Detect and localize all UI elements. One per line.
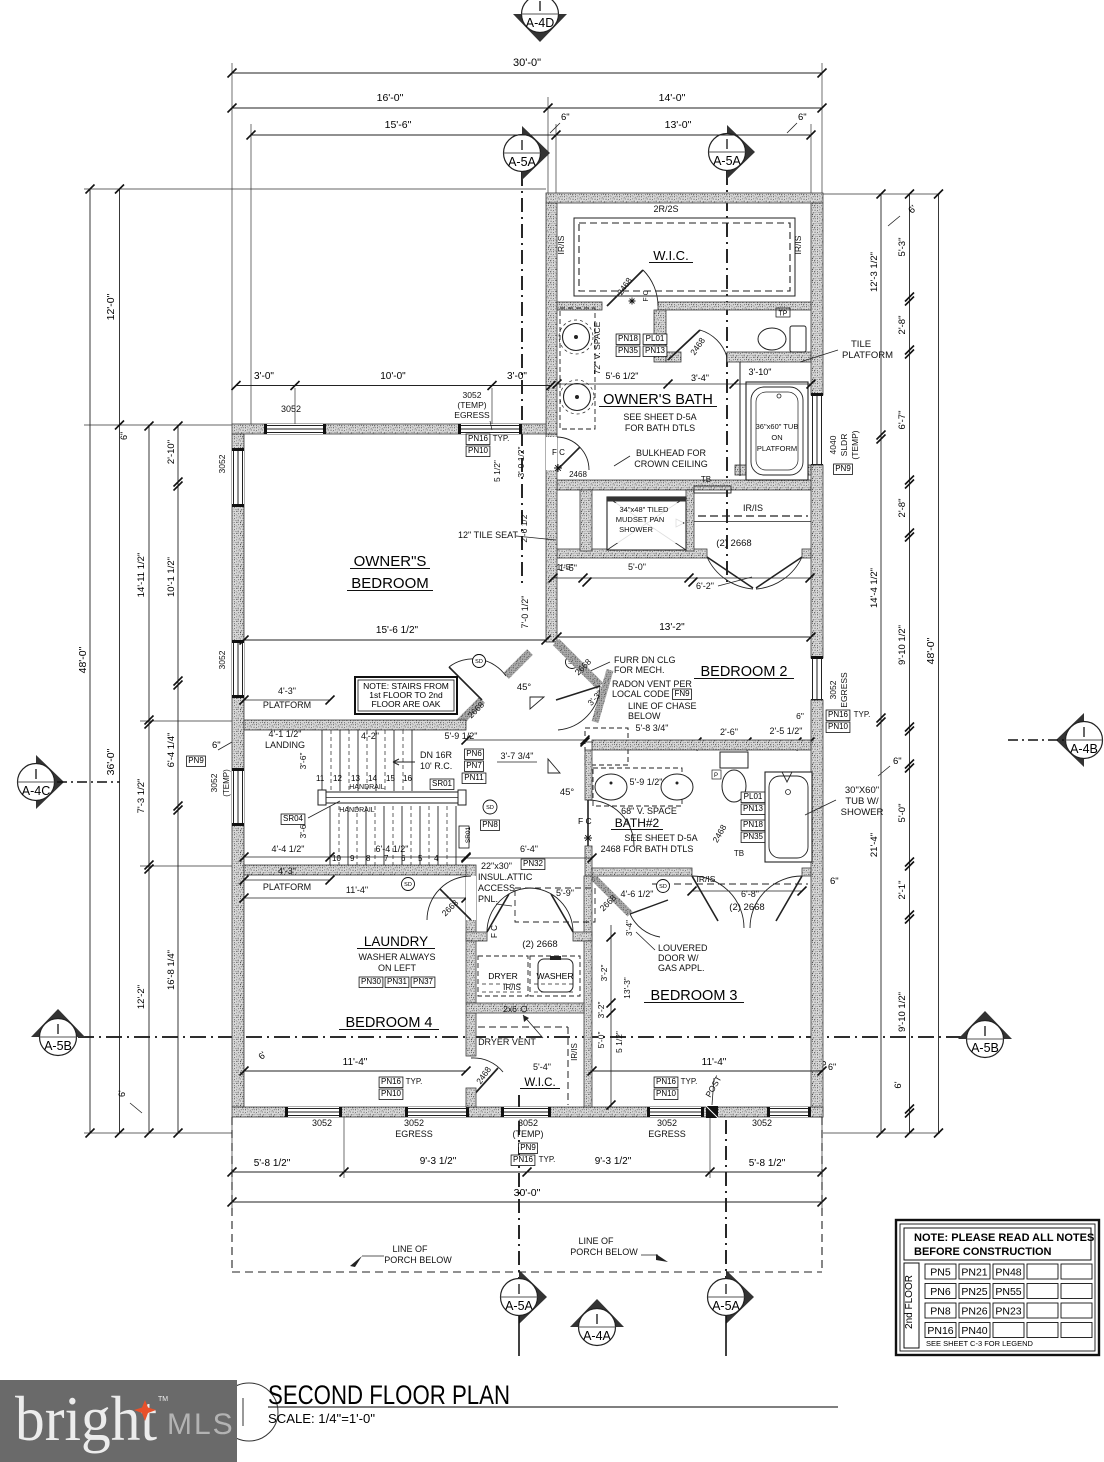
wall tile platform: [735, 465, 811, 475]
svg-text:NOTE: PLEASE READ ALL NOTE: NOTE: PLEASE READ ALL NOTES: [914, 1232, 1094, 1244]
svg-text:PN11: PN11: [464, 773, 484, 782]
svg-text:6': 6': [117, 1090, 127, 1097]
svg-text:11'-4": 11'-4": [343, 1057, 368, 1068]
title circle behind: [220, 1383, 278, 1441]
section stub A-4C: [57, 781, 120, 783]
extension line x556 top: [555, 124, 557, 193]
svg-text:(TEMP): (TEMP): [457, 400, 486, 410]
svg-text:3'-6": 3'-6": [298, 753, 308, 770]
window 3052 EGRESS bedroom2 right wall: [811, 658, 823, 700]
svg-text:3'-7 3/4": 3'-7 3/4": [501, 751, 534, 761]
svg-text:9'-3 1/2": 9'-3 1/2": [420, 1156, 457, 1167]
svg-text:DRYER: DRYER: [488, 971, 518, 981]
section line A-5B horizontal: [78, 1036, 962, 1038]
closet2 door arc left: [707, 557, 753, 589]
label PL01 b2: [741, 792, 765, 803]
svg-text:A-4A: A-4A: [583, 1329, 611, 1343]
svg-text:FLOOR ARE OAK: FLOOR ARE OAK: [372, 699, 441, 709]
svg-text:PN55: PN55: [995, 1286, 1021, 1298]
svg-text:(TEMP): (TEMP): [513, 1129, 544, 1139]
diagonal wall owners door: [456, 700, 482, 726]
svg-text:SR01: SR01: [432, 779, 453, 788]
wall closet2 south right: [802, 549, 811, 558]
svg-text:(2) 2668: (2) 2668: [729, 902, 764, 913]
label PN10 b4: [379, 1089, 403, 1100]
svg-text:3'-2": 3'-2": [596, 1002, 606, 1019]
svg-text:12'-0": 12'-0": [105, 293, 117, 320]
svg-text:13'-2": 13'-2": [659, 622, 685, 633]
svg-text:FN9: FN9: [674, 689, 690, 698]
extension line y424 left: [84, 424, 232, 426]
svg-text:5'-4": 5'-4": [533, 1062, 551, 1072]
dim line shower south: [552, 577, 811, 579]
label PN9 right: [834, 464, 853, 475]
platform dim top: [244, 699, 330, 701]
svg-text:3'-2": 3'-2": [599, 965, 609, 982]
notes box frame: [896, 1220, 1099, 1355]
owners bath entry gap: [546, 437, 557, 470]
svg-text:PN8: PN8: [482, 820, 498, 829]
dimension chain x150 left: [148, 426, 150, 1133]
light bath2: [584, 834, 592, 842]
svg-text:BELOW: BELOW: [628, 711, 661, 721]
dimension chain x905 right: [909, 194, 911, 1133]
louver arc: [630, 914, 660, 937]
bedroom4 door leaf: [440, 889, 471, 920]
bedroom4 closet stub: [466, 1088, 476, 1107]
svg-text:5'-9": 5'-9": [556, 888, 574, 898]
svg-text:MLS: MLS: [167, 1408, 235, 1441]
svg-text:W.I.C.: W.I.C.: [524, 1077, 555, 1089]
svg-text:A-4D: A-4D: [526, 16, 554, 30]
svg-text:2468 FOR BATH DTLS: 2468 FOR BATH DTLS: [601, 844, 694, 854]
svg-text:5'-0": 5'-0": [897, 804, 908, 823]
svg-text:PN10: PN10: [828, 722, 849, 731]
section marker A-5A bottom-left: [519, 1270, 547, 1324]
hall door arc: [558, 686, 600, 730]
label PN16 TYP right: [826, 710, 850, 721]
svg-text:ON: ON: [771, 433, 782, 442]
svg-text:2'-5 1/2": 2'-5 1/2": [770, 726, 803, 736]
section marker A-4C: [36, 755, 64, 809]
ext stub win1 center: [294, 388, 296, 424]
svg-text:TYP.: TYP.: [493, 434, 510, 443]
chase dashed box: [585, 728, 628, 765]
label PN18 b2: [741, 820, 765, 831]
label PN13: [643, 346, 667, 357]
hall dim line: [466, 739, 585, 741]
svg-text:3052: 3052: [217, 650, 227, 669]
shower mudset box: [607, 497, 686, 550]
dimension 15'-6" / 13'-0" top: [251, 134, 811, 136]
svg-text:DN 16R: DN 16R: [420, 750, 453, 760]
section marker A-4D: [513, 14, 567, 42]
svg-text:22"x30": 22"x30": [481, 861, 512, 871]
svg-text:A-5A: A-5A: [508, 155, 536, 169]
extension line y865 left: [140, 865, 244, 867]
svg-text:SCALE: 1/4"=1'-0": SCALE: 1/4"=1'-0": [268, 1411, 375, 1426]
svg-text:F C: F C: [578, 816, 592, 826]
svg-text:PN8: PN8: [930, 1306, 951, 1318]
svg-text:PN10: PN10: [381, 1089, 402, 1098]
bath2 tub: [765, 772, 812, 862]
svg-text:4'-6 1/2": 4'-6 1/2": [621, 889, 654, 899]
svg-text:IR/IS: IR/IS: [743, 503, 763, 513]
svg-text:PN6: PN6: [466, 749, 482, 758]
svg-text:PN23: PN23: [995, 1306, 1021, 1318]
tile seat leader: [516, 536, 556, 540]
underline 3-7: [497, 761, 537, 763]
svg-text:ACCESS: ACCESS: [478, 883, 515, 893]
svg-text:PL01: PL01: [646, 334, 665, 343]
window 3052 TEMP left wall: [232, 770, 244, 824]
svg-text:68" V. SPACE: 68" V. SPACE: [621, 806, 677, 816]
svg-text:SEE SHEET D-5A: SEE SHEET D-5A: [623, 412, 696, 422]
window 3052 TEMP bottom center: [503, 1107, 549, 1117]
stair upper treads: [321, 730, 323, 791]
leader tub2: [805, 800, 836, 815]
svg-text:F C: F C: [490, 925, 499, 938]
svg-text:3'-0": 3'-0": [254, 371, 274, 382]
dimension 3-0 10-0 3-0 top wall: [236, 385, 551, 387]
dim line 11-4 stairs: [244, 897, 466, 899]
tile platform edge: [739, 362, 741, 476]
svg-text:3'-0 1/2": 3'-0 1/2": [516, 446, 526, 477]
sd/ch hall: [483, 800, 497, 814]
svg-text:3'-4": 3'-4": [691, 373, 709, 383]
smoke detector bedroom2: [566, 656, 579, 669]
bath2 sink 1: [595, 774, 627, 800]
laundry west wall: [466, 865, 476, 1003]
svg-text:PLATFORM: PLATFORM: [263, 700, 311, 710]
45 triangle 2: [548, 759, 560, 773]
svg-text:A-4B: A-4B: [1070, 742, 1098, 756]
svg-text:6": 6": [893, 756, 902, 767]
svg-text:13'-3": 13'-3": [622, 977, 632, 999]
svg-text:6": 6": [798, 112, 807, 123]
svg-text:SD: SD: [486, 805, 494, 811]
svg-text:16'-0": 16'-0": [377, 92, 404, 104]
svg-text:PN6: PN6: [930, 1286, 951, 1298]
bath2 shower triangle: [782, 772, 792, 782]
dimension 16'-0" / 14'-0" top: [232, 107, 822, 109]
extension line y194 right: [823, 193, 940, 195]
label PN10 top: [466, 446, 490, 457]
laundry east wall: [584, 876, 592, 941]
stair mid dim line: [244, 856, 466, 858]
wic door leaf: [471, 1068, 498, 1098]
svg-text:9'-3 1/2": 9'-3 1/2": [595, 1156, 632, 1167]
leader dryer vent: [523, 1015, 543, 1038]
extension line x710 bottom: [709, 1117, 711, 1178]
ext stub win2 center: [491, 388, 493, 424]
note stairs box: [355, 677, 457, 714]
svg-text:PN40: PN40: [961, 1325, 987, 1337]
dimension 30'-0" bottom: [232, 1201, 822, 1203]
svg-text:PN30: PN30: [361, 977, 382, 986]
svg-text:BEDROOM: BEDROOM: [351, 575, 429, 592]
svg-text:WASHER ALWAYS: WASHER ALWAYS: [358, 952, 435, 962]
section line A-5A left vertical: [521, 172, 523, 585]
closet3 door arc left: [692, 876, 744, 928]
svg-text:9: 9: [350, 854, 355, 863]
svg-text:BEDROOM 3: BEDROOM 3: [650, 988, 737, 1004]
laundry door wall right: [573, 932, 592, 941]
porch label right leader: [641, 1254, 658, 1256]
extension line y720 left: [140, 720, 244, 722]
svg-text:PN18: PN18: [618, 334, 639, 343]
closet3 door arc right: [750, 876, 802, 928]
dimension bottom chain: [232, 1171, 822, 1173]
svg-text:4040: 4040: [828, 435, 838, 454]
dimension 48'-0" right: [938, 194, 940, 1133]
leader bulkhead: [614, 456, 630, 466]
svg-text:5'-8 3/4": 5'-8 3/4": [636, 723, 669, 733]
svg-text:(TEMP): (TEMP): [222, 769, 231, 797]
svg-text:10: 10: [332, 854, 341, 863]
label PN9 bottom: [519, 1143, 538, 1154]
svg-text:A-5B: A-5B: [44, 1039, 72, 1053]
dimension 11'-4 bedroom3: [592, 1070, 822, 1072]
exterior wall bottom: [232, 1107, 823, 1117]
bath2 door arc: [588, 800, 634, 846]
svg-text:LINE OF: LINE OF: [392, 1244, 428, 1254]
bedroom4 closet west wall: [466, 1013, 476, 1056]
label PN16 bottom: [511, 1155, 535, 1166]
svg-text:34"x48" TILED: 34"x48" TILED: [620, 505, 670, 514]
svg-text:5'-9 1/2": 5'-9 1/2": [630, 777, 663, 787]
svg-text:6'-2": 6'-2": [696, 581, 714, 591]
svg-text:PN9: PN9: [188, 756, 204, 765]
toilet owners bath: [758, 328, 786, 350]
svg-text:PN5: PN5: [930, 1267, 951, 1279]
label PN16 TYP top: [466, 434, 490, 445]
diagonal wall owners door b: [506, 652, 530, 676]
svg-text:16'-8 1/4": 16'-8 1/4": [166, 950, 177, 990]
label PN7: [465, 761, 484, 772]
closet3 dim line: [692, 890, 802, 892]
smoke detector platform: [402, 878, 415, 891]
svg-text:2'-10": 2'-10": [166, 440, 177, 464]
svg-text:IR/IS: IR/IS: [570, 1043, 579, 1061]
platform dim bottom: [244, 879, 330, 881]
svg-text:PN16: PN16: [381, 1077, 402, 1086]
label SR01: [430, 779, 454, 790]
label PN16 b3: [654, 1077, 678, 1088]
bedroom2 mini dim line: [585, 741, 811, 743]
svg-text:F C: F C: [552, 448, 565, 457]
light symbol owners bath: [554, 464, 562, 472]
svg-text:5 1/2": 5 1/2": [614, 1031, 624, 1053]
logo star: [134, 1400, 156, 1421]
svg-text:SEE SHEET C-3 FOR LEGEND: SEE SHEET C-3 FOR LEGEND: [926, 1339, 1034, 1348]
svg-text:BEFORE CONSTRUCTION: BEFORE CONSTRUCTION: [914, 1246, 1052, 1258]
svg-text:SD: SD: [404, 882, 412, 888]
svg-text:6'-4": 6'-4": [520, 844, 538, 854]
svg-text:10' R.C.: 10' R.C.: [420, 761, 452, 771]
dryer box: [478, 956, 528, 996]
svg-text:3052: 3052: [312, 1118, 332, 1128]
svg-text:PN35: PN35: [618, 346, 639, 355]
section marker A-5A top-right: [727, 125, 755, 179]
wall WIC bottom left part: [557, 302, 602, 310]
section marker A-5B right: [958, 1011, 1012, 1039]
svg-text:3052: 3052: [518, 1118, 538, 1128]
svg-text:IR/IS: IR/IS: [697, 874, 716, 884]
shower text bg: [609, 503, 683, 543]
svg-text:11'-4": 11'-4": [346, 885, 368, 895]
section stub A-4B: [1008, 739, 1064, 741]
svg-text:LANDING: LANDING: [265, 740, 305, 750]
svg-text:4'-3": 4'-3": [278, 866, 296, 876]
svg-text:PN10: PN10: [468, 446, 489, 455]
svg-text:5'-0": 5'-0": [628, 562, 646, 572]
wall toilet room bottom b: [727, 352, 811, 362]
title underline: [268, 1406, 838, 1408]
exterior wall right x811: [811, 203, 823, 395]
window 3052 bedroom3 bottom b: [769, 1107, 809, 1117]
svg-text:BATH#2: BATH#2: [615, 816, 660, 830]
svg-text:EGRESS: EGRESS: [454, 410, 490, 420]
A-5A br stub: [725, 1316, 727, 1356]
bedroom4 closet east wall: [584, 941, 592, 1107]
porch dashed left: [231, 1117, 233, 1272]
svg-text:14: 14: [368, 774, 377, 783]
svg-text:PL01: PL01: [744, 792, 763, 801]
porch label left leader: [362, 1255, 384, 1257]
owners tub: [746, 382, 808, 480]
svg-text:2R/2S: 2R/2S: [653, 204, 678, 214]
svg-text:2'-1": 2'-1": [897, 881, 908, 900]
svg-text:LAUNDRY: LAUNDRY: [364, 934, 428, 949]
svg-text:6': 6': [893, 1081, 904, 1088]
b3 dim vertical: [610, 925, 612, 1107]
svg-text:IR/IS: IR/IS: [503, 983, 521, 992]
window 3052 left wall b: [232, 642, 244, 696]
wall shower niche: [580, 490, 592, 551]
exterior wall left (upper section): [546, 203, 557, 434]
svg-text:OWNER'S BATH: OWNER'S BATH: [603, 392, 713, 408]
svg-text:PN13: PN13: [645, 346, 666, 355]
svg-text:5 1/2": 5 1/2": [492, 460, 502, 482]
svg-text:PLATFORM: PLATFORM: [757, 444, 797, 453]
svg-text:RADON VENT PER: RADON VENT PER: [612, 679, 692, 689]
stair bottom wall: [244, 865, 470, 875]
laundry door arc right: [529, 888, 573, 932]
post in bottom wall: [706, 1106, 718, 1118]
bath2 door leaf: [587, 800, 589, 846]
label PN13 b2: [741, 804, 765, 815]
bath dim line: [557, 383, 811, 385]
svg-text:A-5A: A-5A: [505, 1299, 533, 1313]
wall WIC bottom right part: [658, 302, 811, 310]
svg-text:SHOWER: SHOWER: [841, 807, 884, 818]
wall toilet room left: [654, 310, 666, 362]
svg-text:(TEMP): (TEMP): [850, 430, 860, 459]
svg-text:2'-8": 2'-8": [897, 316, 908, 335]
label PN32: [521, 859, 545, 870]
svg-text:PN48: PN48: [995, 1267, 1021, 1279]
stair down arrow: [393, 759, 415, 765]
post leader: [712, 1078, 714, 1105]
dimension 30'-0" top: [232, 72, 822, 74]
svg-text:TYP.: TYP.: [406, 1077, 423, 1086]
laundry door arc left: [487, 888, 531, 932]
label PN35: [616, 346, 640, 357]
extension line x251 top: [250, 124, 252, 424]
svg-text:W.I.C.: W.I.C.: [653, 248, 688, 263]
section marker A-5A top-left: [522, 126, 550, 180]
dimension 15'-6 1/2": [244, 639, 546, 641]
svg-text:PN25: PN25: [961, 1286, 987, 1298]
svg-text:30"X60": 30"X60": [845, 785, 879, 796]
extension line top-left corner: [231, 63, 233, 424]
svg-text:SHOWER: SHOWER: [619, 525, 653, 534]
wall bath2 south: [592, 868, 692, 876]
svg-text:13'-0": 13'-0": [665, 119, 692, 131]
svg-text:6": 6": [796, 711, 804, 721]
svg-text:PN16: PN16: [927, 1325, 953, 1337]
label PN35 b2: [741, 832, 765, 843]
svg-text:(2) 2668: (2) 2668: [522, 939, 557, 950]
svg-text:15'-6 1/2": 15'-6 1/2": [376, 625, 419, 636]
svg-text:PN16: PN16: [468, 434, 489, 443]
sr01 vertical: [459, 826, 469, 848]
dimension 11'-4 bedroom4: [244, 1070, 466, 1072]
svg-text:6'-4 1/2": 6'-4 1/2": [376, 844, 409, 854]
owners door leaf diagonal: [449, 667, 482, 700]
owners bedroom east wall: [546, 434, 557, 642]
svg-text:2'-6 1/2": 2'-6 1/2": [519, 511, 529, 542]
svg-text:PN31: PN31: [387, 977, 408, 986]
svg-text:PN7: PN7: [466, 761, 482, 770]
svg-text:12'-2": 12'-2": [136, 985, 147, 1009]
A-5A bl stub: [518, 1316, 520, 1356]
svg-text:(2) 2668: (2) 2668: [716, 538, 751, 549]
label PN10 b3: [654, 1089, 678, 1100]
svg-text:MUDSET PAN: MUDSET PAN: [616, 515, 664, 524]
svg-text:TUB W/: TUB W/: [845, 796, 879, 807]
svg-text:4: 4: [434, 854, 439, 863]
svg-text:TILE: TILE: [851, 339, 871, 350]
svg-text:SR01: SR01: [465, 826, 472, 843]
label PN18: [616, 334, 640, 345]
svg-text:10'-1 1/2": 10'-1 1/2": [166, 557, 177, 597]
attic dim line: [466, 857, 592, 859]
label TP bath2: [712, 770, 721, 779]
svg-text:36"x60" TUB: 36"x60" TUB: [756, 422, 799, 431]
svg-text:12: 12: [333, 774, 342, 783]
svg-text:7'-0 1/2": 7'-0 1/2": [520, 596, 530, 629]
window 3052 owners bedroom top: [266, 424, 324, 434]
svg-text:DRYER VENT: DRYER VENT: [478, 1037, 536, 1047]
svg-text:2'-6": 2'-6": [720, 727, 738, 737]
svg-text:LOUVERED: LOUVERED: [658, 943, 708, 953]
wall bath2 north: [592, 740, 811, 750]
porch dashed bottom: [232, 1271, 822, 1273]
exterior wall right lower: [811, 700, 823, 1117]
svg-text:9'-10 1/2": 9'-10 1/2": [897, 992, 908, 1032]
svg-text:FURR DN CLG: FURR DN CLG: [614, 655, 676, 665]
owners bath door leaf: [557, 447, 580, 470]
stair handrail band: [321, 792, 462, 803]
wic shelf dashed: [478, 1026, 568, 1028]
svg-text:48'-0": 48'-0": [925, 637, 937, 664]
smoke detector bedroom3: [657, 880, 670, 893]
svg-text:15: 15: [386, 774, 395, 783]
attic leader: [496, 904, 512, 906]
svg-text:16: 16: [403, 774, 412, 783]
